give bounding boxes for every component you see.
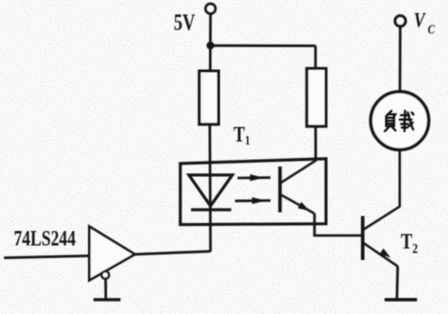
- light arrow upper: [238, 174, 271, 181]
- wire R2 to phototransistor collector: [314, 126, 317, 161]
- wire buffer input: [4, 256, 89, 258]
- label 5V: [174, 11, 196, 36]
- transistor T2 emitter: [364, 243, 398, 266]
- buffer U1 74LS244 triangle: [89, 227, 135, 281]
- load circle: [371, 92, 429, 150]
- ground left: [94, 298, 121, 301]
- LED D1: [189, 175, 232, 206]
- label T1: [234, 122, 251, 148]
- wire T2 emitter to ground: [396, 266, 399, 299]
- wire emitter down: [315, 214, 363, 236]
- light arrow lower: [235, 197, 271, 204]
- resistor R1: [199, 71, 218, 124]
- ground right: [385, 298, 417, 301]
- char 负: [385, 111, 396, 131]
- transistor T2 collector: [364, 150, 400, 230]
- label Vc: [414, 10, 435, 37]
- svg-text:74LS244: 74LS244: [14, 227, 76, 251]
- node junction 5V rail: [207, 42, 215, 50]
- phototransistor collector: [281, 161, 316, 184]
- char 载: [400, 111, 414, 132]
- wire 5V rail horizontal: [211, 44, 316, 47]
- phototransistor emitter: [281, 195, 315, 214]
- wire enable to ground: [104, 279, 107, 299]
- transistor T2 emitter arrowhead: [379, 248, 390, 257]
- label T2: [401, 229, 418, 256]
- phototransistor base bar: [278, 167, 282, 213]
- wire rail to R2: [314, 46, 317, 69]
- label load chinese 负载: [385, 111, 414, 132]
- label 74LS244: [14, 227, 76, 251]
- buffer enable bubble: [102, 271, 109, 278]
- resistor R2: [307, 69, 326, 127]
- LED cathode bar: [191, 208, 231, 211]
- phototransistor emitter arrowhead: [298, 202, 310, 211]
- optocoupler T1 box: [180, 159, 326, 225]
- svg-text:5V: 5V: [174, 11, 196, 36]
- terminal Vc: [395, 16, 405, 26]
- wire R1 to LED anode: [209, 124, 212, 251]
- wire 5V terminal to R1: [209, 14, 212, 71]
- wire Vc to load: [399, 27, 402, 92]
- wire buffer output: [135, 251, 211, 254]
- terminal 5V: [206, 4, 216, 14]
- transistor T2 base bar: [361, 216, 365, 260]
